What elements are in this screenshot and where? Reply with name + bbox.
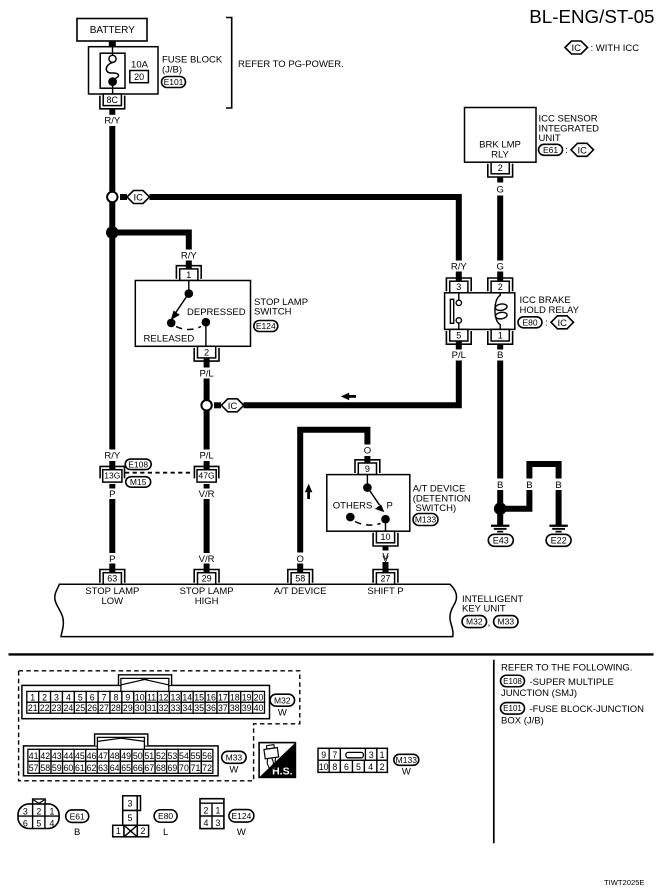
svg-text:53: 53 (168, 751, 178, 761)
junction node B (494, 502, 507, 515)
svg-text:49: 49 (121, 751, 131, 761)
wire trunk2 stop lamp switch pin 2 to IC circle and 47G (x=206.6) (204, 358, 210, 368)
svg-text:42: 42 (40, 751, 50, 761)
svg-text:R/Y: R/Y (104, 115, 121, 126)
connector id M133 label (394, 754, 419, 765)
svg-text:10: 10 (319, 762, 329, 772)
svg-text:G: G (497, 261, 504, 272)
svg-text:10: 10 (380, 532, 390, 542)
svg-text:8C: 8C (107, 95, 119, 105)
connector face E80 pin grid (123, 796, 138, 811)
svg-text:3: 3 (23, 806, 28, 816)
svg-text:V/R: V/R (199, 554, 215, 565)
svg-text:70: 70 (179, 763, 189, 773)
svg-text:TIWT2025E: TIWT2025E (604, 878, 645, 887)
connector id M133 (413, 514, 438, 526)
connector 3 of relay (446, 278, 471, 291)
IC circle node 1 (107, 192, 117, 202)
connector 1 of stop lamp switch (176, 266, 201, 279)
svg-text:W: W (402, 767, 411, 778)
svg-text:B: B (555, 480, 561, 491)
stop lamp switch box E124 (135, 281, 250, 347)
svg-text:22: 22 (40, 703, 50, 713)
svg-text:35: 35 (194, 703, 204, 713)
svg-text:RLY: RLY (491, 150, 509, 161)
svg-text:20: 20 (254, 692, 264, 702)
fuse number 20 box (130, 71, 149, 83)
svg-text:5: 5 (456, 330, 461, 340)
wire B jumper from junction to ground E22 (505, 490, 529, 509)
A/T switch P contact (381, 515, 390, 524)
svg-text:R/Y: R/Y (104, 450, 121, 461)
svg-text:12: 12 (159, 692, 169, 702)
svg-text:KEY UNIT: KEY UNIT (462, 603, 506, 614)
svg-text:2: 2 (498, 282, 503, 292)
svg-text:M32: M32 (274, 695, 291, 705)
bracket refer to pg-power (226, 18, 232, 109)
svg-text:SWITCH: SWITCH (254, 307, 292, 318)
legend IC hexagon (565, 41, 588, 54)
svg-text:2: 2 (498, 163, 503, 173)
svg-text:8: 8 (332, 762, 337, 772)
svg-text:HIGH: HIGH (195, 596, 219, 607)
wire V from A/T device pin 10 to connector 27 (x=385.5) (383, 546, 389, 551)
svg-text:HOLD RELAY: HOLD RELAY (520, 305, 580, 316)
relay contact pins (458, 293, 460, 300)
svg-text:SWITCH): SWITCH) (416, 503, 457, 514)
connector face M33 pin grid (24, 746, 219, 776)
svg-text:B: B (497, 350, 503, 361)
svg-text:BL-ENG/ST-05: BL-ENG/ST-05 (529, 6, 654, 27)
svg-text:27: 27 (380, 574, 390, 584)
svg-text:33: 33 (170, 703, 180, 713)
svg-text:BOX (J/B): BOX (J/B) (501, 716, 544, 727)
logo H.S. view (259, 743, 295, 778)
svg-text:1: 1 (30, 692, 35, 702)
svg-text:P/L: P/L (452, 350, 466, 361)
svg-text:2: 2 (141, 826, 146, 836)
ground id E22 (546, 534, 571, 546)
connector face E124 pin grid (200, 799, 224, 829)
svg-text:IC: IC (572, 43, 582, 54)
svg-text:5: 5 (36, 819, 41, 829)
relay contact bar (450, 299, 453, 323)
svg-text:4: 4 (368, 762, 373, 772)
svg-text:5: 5 (128, 813, 133, 823)
wire trunk3 A/T device feed (x=300.2) up and over to pin 9 (300, 430, 367, 553)
svg-text:72: 72 (202, 763, 212, 773)
intelligent key unit box (55, 584, 457, 636)
connector id M33 label (222, 751, 247, 763)
svg-text:-SUPER MULTIPLE: -SUPER MULTIPLE (530, 677, 614, 688)
svg-text:P: P (109, 489, 115, 500)
svg-text:IC: IC (134, 193, 144, 204)
svg-text:2: 2 (36, 806, 41, 816)
wire branch from node A to stop lamp switch pin 1 (112, 233, 189, 250)
wire B from relay pin 1 to ground junction (497, 344, 503, 350)
svg-text:14: 14 (182, 692, 192, 702)
svg-text:P: P (109, 554, 115, 565)
relay coil (495, 293, 500, 329)
svg-text:M33: M33 (498, 617, 515, 627)
svg-text:W: W (229, 765, 238, 776)
svg-text:E80: E80 (158, 811, 173, 821)
wire battery to fuse block (109, 41, 116, 48)
ICC brake hold relay box E80 (445, 293, 515, 330)
connector face E61 pin grid (18, 804, 59, 829)
svg-text:5: 5 (78, 692, 83, 702)
svg-text:E22: E22 (551, 536, 567, 546)
fuse F1 10A box (100, 53, 125, 88)
svg-text:1: 1 (498, 330, 503, 340)
wire IC horizontal 2 (y=405) to ICC brake hold relay pin 5 (214, 402, 221, 408)
svg-text:17: 17 (218, 692, 228, 702)
svg-text:57: 57 (29, 763, 39, 773)
connector id E61 with IC tag (539, 144, 563, 155)
svg-text:,: , (488, 618, 491, 629)
arrow up on A/T wire (305, 484, 313, 492)
svg-text:28: 28 (111, 703, 121, 713)
svg-text:23: 23 (52, 703, 62, 713)
wire IC horizontal 1 (y=197) to ICC brake hold relay pin 3 (120, 194, 127, 200)
svg-text:48: 48 (110, 751, 120, 761)
svg-text:44: 44 (63, 751, 73, 761)
svg-text:L: L (163, 827, 168, 838)
A/T switch common contact (363, 483, 372, 492)
svg-text:10: 10 (135, 692, 145, 702)
junction node A (106, 226, 119, 239)
ground E43 symbol (491, 525, 509, 527)
svg-text:E61: E61 (543, 145, 558, 155)
svg-text:43: 43 (52, 751, 62, 761)
connector id E108 (125, 459, 151, 470)
wire G from BRK LMP RLY pin 2 to relay pin 2 (x=500.2) (497, 177, 503, 183)
svg-text:W: W (278, 708, 287, 719)
svg-text:9: 9 (365, 464, 370, 474)
svg-text:52: 52 (156, 751, 166, 761)
ground E22 symbol (549, 525, 567, 527)
svg-text:JUNCTION (SMJ): JUNCTION (SMJ) (501, 688, 577, 699)
svg-text:E108: E108 (128, 459, 148, 469)
svg-text:SHIFT P: SHIFT P (367, 586, 403, 597)
stop lamp switch dashed arc (176, 327, 201, 330)
stop lamp switch depressed contact (202, 318, 211, 327)
connector 47G (194, 466, 218, 478)
svg-text:7: 7 (102, 692, 107, 702)
svg-text:B: B (74, 827, 80, 838)
svg-text:7: 7 (332, 750, 337, 760)
svg-text:W: W (237, 827, 246, 838)
svg-text:G: G (497, 185, 504, 196)
svg-text:M33: M33 (226, 752, 243, 762)
connector face M133 pin grid (318, 748, 387, 772)
svg-text:9: 9 (321, 750, 326, 760)
svg-text:69: 69 (168, 763, 178, 773)
connector id M15 (126, 477, 151, 488)
svg-text:-FUSE BLOCK-JUNCTION: -FUSE BLOCK-JUNCTION (530, 704, 645, 715)
connector 9 of A/T device (355, 460, 380, 473)
svg-text:60: 60 (63, 763, 73, 773)
connector 58 of key unit (288, 570, 313, 583)
svg-text:DEPRESSED: DEPRESSED (187, 307, 246, 318)
svg-text:E80: E80 (522, 317, 537, 327)
svg-text:B: B (526, 480, 532, 491)
svg-text:1: 1 (116, 826, 121, 836)
svg-text:47: 47 (98, 751, 108, 761)
connector id E80 label (154, 810, 177, 823)
svg-text:V: V (382, 554, 389, 565)
svg-text:3: 3 (128, 799, 133, 809)
svg-text:36: 36 (206, 703, 216, 713)
svg-text:E124: E124 (231, 811, 251, 821)
svg-text:31: 31 (147, 703, 157, 713)
svg-text:: WITH ICC: : WITH ICC (591, 43, 640, 54)
svg-text:26: 26 (87, 703, 97, 713)
connector 10 of A/T device (373, 533, 398, 546)
svg-text:E101: E101 (503, 704, 522, 713)
svg-text:47G: 47G (199, 471, 215, 481)
svg-text:2: 2 (42, 692, 47, 702)
reference id E101 (501, 703, 525, 715)
svg-text:LOW: LOW (101, 596, 123, 607)
svg-text:61: 61 (75, 763, 85, 773)
svg-text:2: 2 (380, 762, 385, 772)
svg-text:O: O (364, 446, 371, 457)
svg-text:38: 38 (230, 703, 240, 713)
svg-text:55: 55 (191, 751, 201, 761)
svg-text:H.S.: H.S. (272, 766, 293, 778)
svg-text:E101: E101 (164, 77, 184, 87)
battery B1 (77, 19, 147, 42)
svg-text:63: 63 (107, 574, 117, 584)
IC hexagon tag 1 (127, 191, 150, 204)
svg-text:30: 30 (135, 703, 145, 713)
unit ids M32 M33 (462, 616, 487, 628)
svg-text:19: 19 (242, 692, 252, 702)
svg-text:25: 25 (75, 703, 85, 713)
svg-text:E108: E108 (503, 677, 522, 686)
A/T switch arm with arrow (369, 490, 380, 505)
svg-text:IC: IC (558, 318, 568, 329)
connector 1 of relay (488, 331, 513, 344)
svg-text:2: 2 (204, 806, 209, 816)
svg-text:29: 29 (202, 574, 212, 584)
svg-text:E43: E43 (493, 536, 509, 546)
A/T switch dashed arc (355, 522, 381, 526)
fuse block box (J/B) (89, 47, 159, 94)
svg-text:R/Y: R/Y (181, 251, 198, 262)
connector 8C (100, 96, 125, 109)
svg-text:3: 3 (54, 692, 59, 702)
svg-text:13G: 13G (104, 471, 120, 481)
svg-text:64: 64 (110, 763, 120, 773)
svg-text:BATTERY: BATTERY (90, 25, 136, 36)
svg-text:51: 51 (144, 751, 154, 761)
svg-text:24: 24 (63, 703, 73, 713)
svg-text:18: 18 (230, 692, 240, 702)
separator line (9, 653, 654, 655)
connector 13G (100, 466, 124, 478)
svg-text::: : (545, 318, 548, 329)
svg-text:67: 67 (144, 763, 154, 773)
svg-text:6: 6 (23, 819, 28, 829)
svg-text:58: 58 (295, 574, 305, 584)
svg-text:4: 4 (66, 692, 71, 702)
svg-text:21: 21 (28, 703, 38, 713)
svg-text::: : (565, 145, 568, 156)
svg-text:46: 46 (87, 751, 97, 761)
svg-text:29: 29 (123, 703, 133, 713)
connector 2 of stop lamp switch (194, 348, 219, 361)
svg-text:3: 3 (369, 750, 374, 760)
svg-text:37: 37 (218, 703, 228, 713)
svg-text:54: 54 (179, 751, 189, 761)
svg-text:6: 6 (90, 692, 95, 702)
svg-text:32: 32 (159, 703, 169, 713)
svg-text:3: 3 (456, 282, 461, 292)
svg-text:P/L: P/L (199, 450, 213, 461)
svg-text:A/T DEVICE: A/T DEVICE (274, 586, 327, 597)
ICC sensor integrated unit box E61 (465, 108, 537, 163)
stop lamp switch arm with arrow (176, 296, 188, 314)
svg-text:27: 27 (99, 703, 109, 713)
ground id E43 (488, 534, 513, 546)
svg-text:11: 11 (147, 692, 156, 702)
arrow left on IC wire 2 (341, 393, 349, 401)
svg-text:E124: E124 (256, 321, 276, 331)
connector id E124 label (229, 810, 254, 823)
svg-text:UNIT: UNIT (539, 133, 561, 144)
svg-text:45: 45 (75, 751, 85, 761)
dashed outline around M32 M33 (19, 671, 300, 781)
svg-text:OTHERS: OTHERS (333, 500, 373, 511)
svg-text:68: 68 (156, 763, 166, 773)
wire ground stub E43 (497, 514, 503, 526)
svg-text:66: 66 (133, 763, 143, 773)
svg-text:IC: IC (228, 401, 238, 412)
svg-text:40: 40 (254, 703, 264, 713)
svg-text:REFER TO THE FOLLOWING.: REFER TO THE FOLLOWING. (501, 663, 632, 674)
A/T device box M133 (327, 475, 410, 532)
svg-text:M15: M15 (130, 477, 147, 487)
connector id E124 (254, 321, 278, 332)
svg-text:1: 1 (216, 806, 221, 816)
svg-text:50: 50 (133, 751, 143, 761)
connector 2 of relay (488, 278, 513, 291)
connector face M32 pin grid (22, 685, 270, 718)
svg-text:V/R: V/R (199, 489, 215, 500)
reference divider line (493, 660, 495, 844)
svg-text:16: 16 (206, 692, 216, 702)
svg-text:3: 3 (216, 818, 221, 828)
svg-text:15: 15 (194, 692, 204, 702)
svg-text:4: 4 (204, 818, 209, 828)
stop lamp switch released contact (167, 319, 176, 328)
svg-text:39: 39 (242, 703, 252, 713)
svg-text:41: 41 (29, 751, 39, 761)
svg-text:M133: M133 (396, 755, 418, 765)
fuse F1 element (112, 47, 114, 55)
connector 2 of ICC sensor unit (488, 164, 513, 177)
svg-text:62: 62 (87, 763, 97, 773)
connector id M32 label (270, 694, 295, 706)
svg-text:RELEASED: RELEASED (144, 333, 195, 344)
connector 29 of key unit (194, 570, 219, 583)
svg-text:8: 8 (113, 692, 118, 702)
svg-text:O: O (297, 554, 304, 565)
svg-text:E61: E61 (70, 811, 85, 821)
svg-text:IC: IC (578, 145, 588, 156)
svg-text:R/Y: R/Y (451, 261, 468, 272)
svg-text:4: 4 (50, 819, 55, 829)
connector 5 of relay (446, 331, 471, 344)
svg-text:58: 58 (40, 763, 50, 773)
svg-text:6: 6 (344, 762, 349, 772)
wire trunk1 battery feed R/Y vertical (x=112) (109, 109, 115, 115)
reference id E108 (501, 675, 525, 687)
svg-text:M32: M32 (466, 617, 483, 627)
IC hexagon tag 2 (221, 399, 244, 412)
wire trunk3 lower stub to connector 58 (297, 564, 303, 575)
svg-text:P: P (387, 500, 393, 511)
IC circle node 2 (201, 400, 211, 410)
connector id E61 label (66, 810, 89, 823)
connector id E80 with IC tag (518, 317, 542, 328)
connector 27 of key unit (373, 570, 398, 583)
svg-text:1: 1 (50, 806, 55, 816)
svg-text:REFER TO PG-POWER.: REFER TO PG-POWER. (238, 59, 344, 70)
svg-text:B: B (497, 480, 503, 491)
svg-text:63: 63 (98, 763, 108, 773)
svg-text:71: 71 (191, 763, 201, 773)
svg-text:1: 1 (186, 270, 191, 280)
svg-text:59: 59 (52, 763, 62, 773)
svg-text:5: 5 (356, 762, 361, 772)
connector id E101 (162, 77, 186, 88)
svg-text:9: 9 (125, 692, 130, 702)
svg-text:2: 2 (204, 347, 209, 357)
A/T switch OTHERS contact (346, 513, 355, 522)
svg-text:34: 34 (182, 703, 192, 713)
connector 63 of key unit (100, 570, 125, 583)
svg-text:(J/B): (J/B) (162, 65, 182, 76)
svg-text:20: 20 (134, 72, 144, 82)
svg-text:13: 13 (170, 692, 180, 702)
svg-text:P/L: P/L (199, 368, 213, 379)
svg-text:56: 56 (202, 751, 212, 761)
stop lamp switch contact common (185, 289, 194, 298)
svg-text:1: 1 (380, 750, 385, 760)
svg-text:65: 65 (121, 763, 131, 773)
svg-text:10A: 10A (131, 59, 149, 70)
dashed link 13G-47G (125, 472, 193, 474)
svg-text:M133: M133 (415, 515, 437, 525)
